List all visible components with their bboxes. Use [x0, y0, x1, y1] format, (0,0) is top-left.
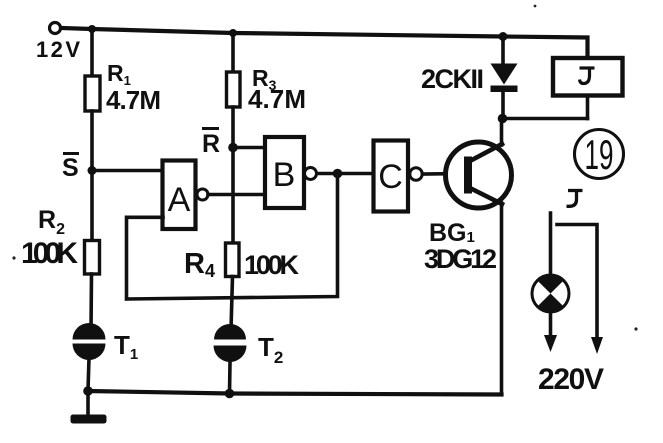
- wire lamp to arrow: [549, 313, 553, 338]
- wire R node to gate B input: [233, 146, 265, 150]
- node top-rail/R1 junction: [88, 25, 96, 33]
- resistor R3: [227, 72, 241, 107]
- svg-text:19: 19: [585, 131, 614, 178]
- label J coil: [580, 68, 595, 84]
- wire T2 to ground bus: [228, 363, 232, 394]
- svg-text:100K: 100K: [244, 250, 300, 280]
- wire S node to R2: [90, 171, 94, 242]
- svg-text:B: B: [273, 156, 296, 194]
- svg-text:100K: 100K: [21, 237, 78, 270]
- wire B output to C input: [317, 172, 374, 176]
- op-amp gate C (inverter C): [374, 141, 409, 212]
- wire R1 branch upper: [90, 29, 94, 76]
- bubble C output: [410, 168, 422, 180]
- node ground-bus/T1 junction: [83, 386, 93, 396]
- wire relay bottom to junction: [503, 117, 588, 121]
- node R junction: [228, 143, 238, 153]
- wire R2 to T1: [89, 274, 93, 330]
- wire top rail 12V: [61, 28, 588, 58]
- node top-rail/diode junction: [499, 32, 508, 41]
- scan speck: [534, 5, 537, 8]
- svg-text:R2: R2: [38, 206, 65, 238]
- resistor R1: [85, 76, 100, 111]
- svg-text:12V: 12V: [36, 37, 80, 62]
- bubble B output: [305, 168, 317, 180]
- node collector/diode/relay junction: [498, 114, 508, 124]
- node circled 19: [575, 130, 624, 179]
- diode 2CK11: [501, 37, 505, 65]
- wire feedback rail into A: [127, 174, 338, 300]
- wire C output to base: [423, 172, 467, 176]
- svg-text:A: A: [168, 181, 191, 219]
- svg-text:R1: R1: [107, 60, 131, 88]
- svg-text:4.7M: 4.7M: [106, 85, 161, 115]
- transistor Q1 BG1: [446, 142, 512, 208]
- op-amp gate A (NAND A): [163, 161, 196, 230]
- wire T1 to ground bus: [88, 358, 89, 391]
- scan speck: [12, 256, 15, 259]
- wire R4 to T2: [231, 277, 233, 331]
- op-amp gate B (NAND B): [265, 137, 304, 208]
- wire ground bus: [88, 391, 502, 395]
- relay contact J right line: [557, 225, 597, 339]
- svg-text:R4: R4: [184, 248, 215, 281]
- wire R1 to S node: [90, 111, 94, 171]
- lamp: [532, 275, 569, 312]
- relay contact J left line: [549, 213, 553, 274]
- label J contact: [567, 191, 583, 207]
- scan speck: [634, 327, 637, 330]
- svg-text:220V: 220V: [538, 363, 604, 396]
- svg-text:3DG12: 3DG12: [424, 244, 497, 274]
- svg-text:R: R: [202, 130, 220, 158]
- svg-text:T1: T1: [114, 330, 138, 363]
- svg-text:2CKII: 2CKII: [421, 64, 484, 94]
- wire collector up: [500, 119, 504, 146]
- bubble A output: [197, 189, 208, 200]
- svg-text:C: C: [378, 158, 403, 196]
- resistor R2: [85, 241, 100, 275]
- wire R3 branch upper: [231, 33, 235, 72]
- node B-output junction: [333, 169, 343, 179]
- wire A output to B input: [208, 193, 265, 197]
- node S junction: [88, 166, 97, 175]
- node ground-bus/T2 junction: [225, 389, 235, 399]
- svg-text:S: S: [62, 154, 79, 182]
- node top-rail/R3 junction: [229, 29, 237, 37]
- ground: [86, 391, 90, 415]
- wire R3 to R node and down to R4: [231, 107, 235, 243]
- wire emitter down: [500, 203, 504, 395]
- touch contact T1: [73, 323, 106, 360]
- svg-text:T2: T2: [258, 332, 283, 367]
- relay J coil: [553, 58, 623, 96]
- wire S node to gate A input: [92, 169, 163, 173]
- terminal 12V: [50, 23, 61, 34]
- svg-text:4.7M: 4.7M: [248, 84, 306, 114]
- svg-text:BG1: BG1: [429, 219, 475, 247]
- touch contact T2: [214, 324, 247, 362]
- resistor R4: [226, 243, 240, 277]
